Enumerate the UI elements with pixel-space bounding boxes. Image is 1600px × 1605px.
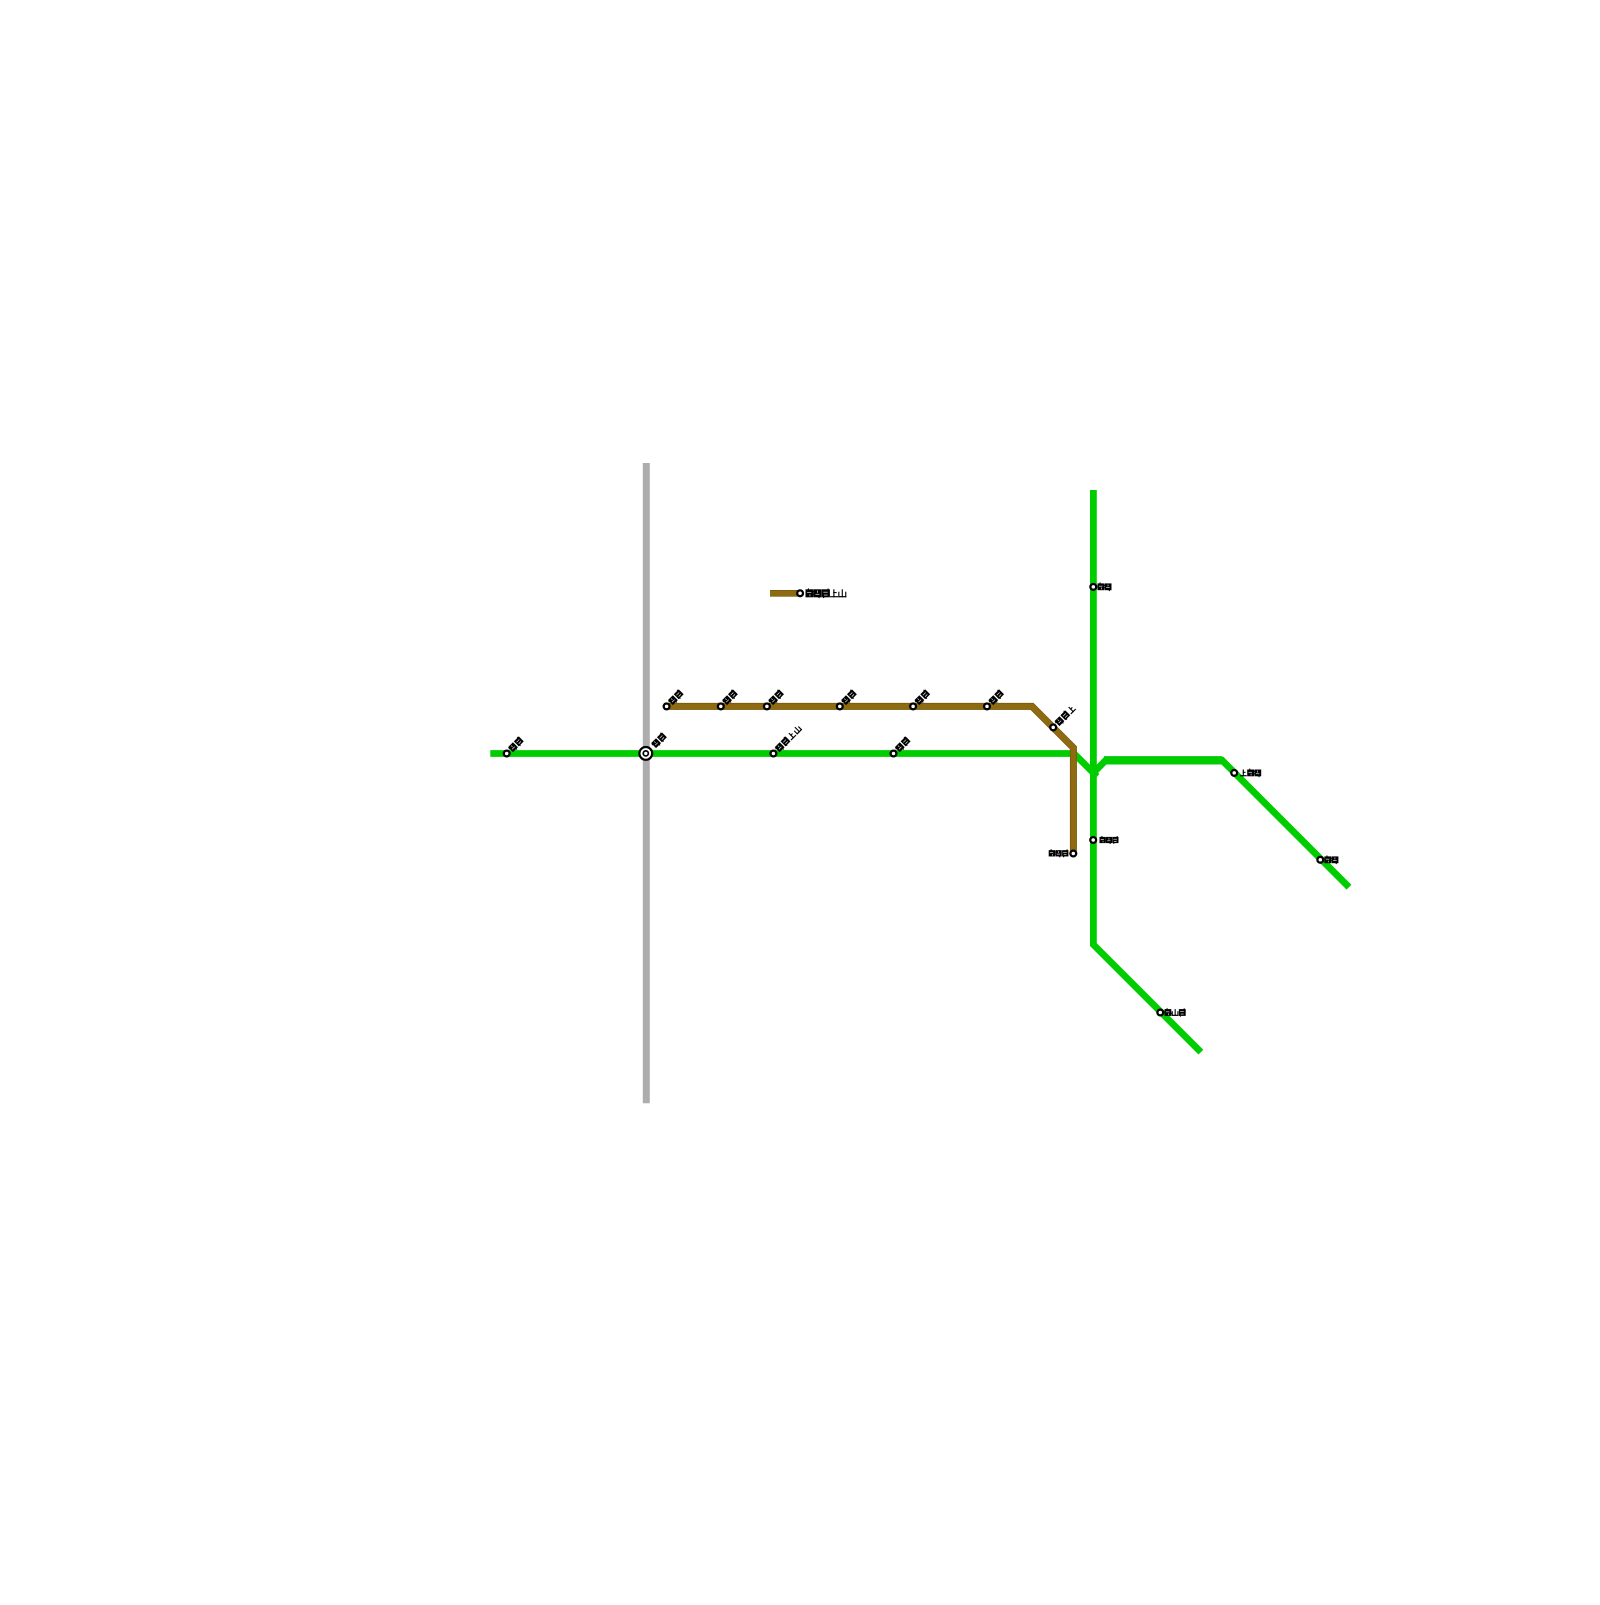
green station (4-char rotated label) bbox=[771, 724, 803, 756]
brown terminal station Kogota (label left) bbox=[1049, 849, 1077, 857]
interchange station Furukawa (double circle) bbox=[639, 732, 667, 760]
green station Kami-Wakuya bbox=[1231, 769, 1261, 778]
brown line bbox=[664, 706, 1073, 851]
brown station 3 bbox=[764, 689, 785, 710]
green west terminal station bbox=[504, 736, 525, 757]
green vertical line north-south with southeast diagonal bbox=[1093, 490, 1201, 1052]
brown station 2 bbox=[718, 689, 739, 710]
green station (2-char rotated label) bbox=[891, 736, 912, 757]
brown station 1 bbox=[664, 689, 685, 710]
green station Wakuya bbox=[1317, 856, 1338, 865]
green vertical station north (Tajiri) bbox=[1090, 583, 1111, 592]
green east branch line bbox=[1093, 760, 1349, 887]
legend: brown line sample, circle and line name bbox=[770, 588, 846, 598]
brown station 4 bbox=[837, 689, 858, 710]
green station Kogota (label right) bbox=[1090, 836, 1118, 844]
green station Matsuyamamachi bbox=[1157, 1008, 1185, 1016]
brown diagonal station bbox=[1050, 704, 1076, 730]
green main line west with junction diagonal bbox=[490, 754, 1097, 777]
brown station 5 bbox=[910, 689, 931, 710]
gray line (shinkansen) bbox=[643, 463, 650, 1103]
brown station 6 bbox=[984, 689, 1005, 710]
